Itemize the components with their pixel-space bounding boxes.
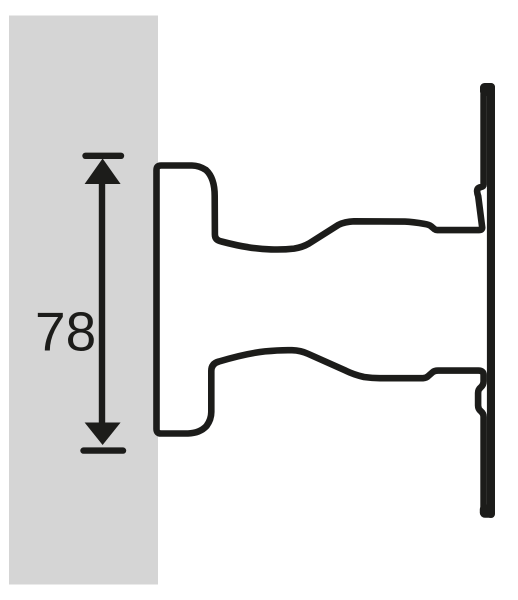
dimension line [99,183,105,424]
dimension bottom cap [84,447,124,453]
dimension bottom arrowhead [85,423,121,446]
dimension top cap [86,153,122,159]
monitor plate (vertical bar) [487,83,495,518]
plate top cap (merged) [480,83,495,96]
dimension top arrowhead [85,159,121,185]
wall (gray band) [9,16,158,585]
plate bottom cap (merged) [480,505,495,518]
bracket outline (foot, spool arm, hooks) [157,88,488,511]
svg-text:78: 78 [35,301,96,363]
